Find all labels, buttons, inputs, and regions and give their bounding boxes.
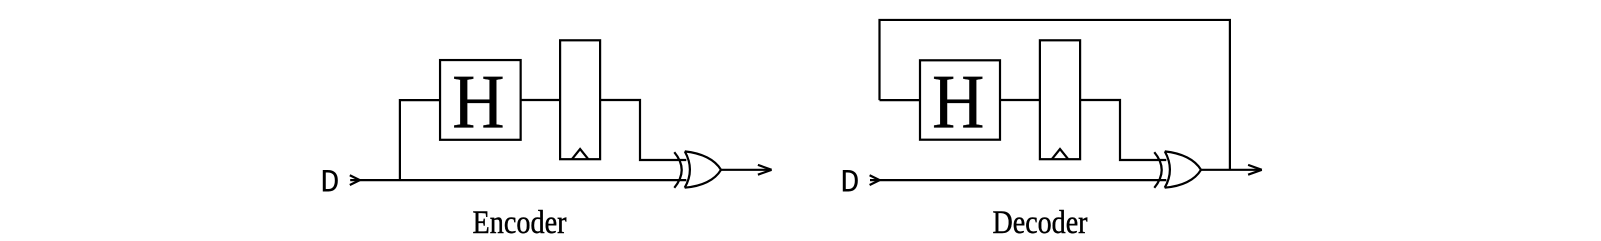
svg-text:Encoder: Encoder xyxy=(473,205,567,241)
svg-text:H: H xyxy=(452,58,505,144)
svg-text:D: D xyxy=(840,164,859,201)
svg-text:D: D xyxy=(320,164,339,201)
svg-text:Decoder: Decoder xyxy=(993,205,1088,241)
svg-text:H: H xyxy=(932,58,985,144)
